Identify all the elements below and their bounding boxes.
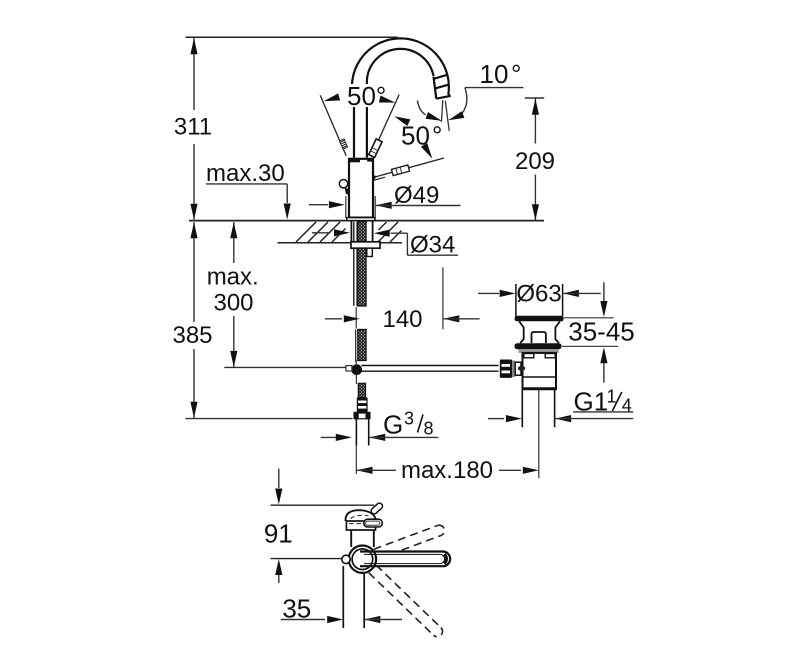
lever line root wedge xyxy=(373,174,377,182)
braided hose below tee xyxy=(358,383,365,397)
front view handle dome xyxy=(345,510,375,521)
dimension 35-45 xyxy=(564,317,614,319)
svg-text:91: 91 xyxy=(264,519,293,549)
pivot side ball xyxy=(342,555,350,563)
50 deg upper label with white backing xyxy=(344,84,389,107)
stream axis tilted line xyxy=(445,101,449,131)
svg-text:°: ° xyxy=(432,121,442,151)
top reference line xyxy=(186,36,398,38)
dimension Ø63 xyxy=(478,292,499,294)
tee left fitting xyxy=(346,366,352,371)
dimension G1 1/4 xyxy=(488,418,504,420)
hose break symbol xyxy=(355,307,357,329)
dashed lever swung up xyxy=(374,524,446,560)
pivot ring outer xyxy=(349,546,376,573)
shank through counter xyxy=(350,221,352,242)
pop-up body xyxy=(523,353,557,389)
50 deg upper left arrow xyxy=(323,93,340,104)
lever down short double line xyxy=(370,177,385,181)
spout tube outer wall and arc xyxy=(352,38,449,157)
pop-up neck left xyxy=(519,321,524,343)
body top-left black notch xyxy=(349,159,360,163)
rod pivot ball xyxy=(518,366,525,371)
dimension 91 xyxy=(278,469,280,488)
front view body shaft xyxy=(342,566,344,628)
svg-text:3: 3 xyxy=(404,409,414,429)
smooth hose lower section xyxy=(355,330,357,363)
svg-text:4: 4 xyxy=(622,396,632,416)
supply tube extension line xyxy=(355,446,357,475)
dimension 140 xyxy=(442,267,444,329)
svg-text:35-45: 35-45 xyxy=(568,317,635,347)
svg-text:°: ° xyxy=(511,59,521,89)
escutcheon base xyxy=(347,218,375,221)
lever down end cap (hatched) xyxy=(391,165,409,176)
braided hose lower section xyxy=(358,330,366,361)
385 bottom reference line xyxy=(185,418,352,420)
pop-up neck right xyxy=(555,321,560,343)
svg-text:140: 140 xyxy=(382,306,422,333)
dimension Ø49 xyxy=(345,196,347,218)
svg-text:G: G xyxy=(383,410,403,440)
10 deg left arc with arrow xyxy=(418,101,426,115)
svg-text:10: 10 xyxy=(480,59,509,89)
10 deg right arc with arrow xyxy=(462,88,467,114)
svg-text:8: 8 xyxy=(424,419,434,439)
front view lever axis reference line xyxy=(271,558,342,560)
10 deg label reference line xyxy=(465,87,524,89)
50 deg upper right arrow xyxy=(379,95,396,106)
lever position left line xyxy=(320,95,346,156)
50 deg lower leader arrow xyxy=(421,143,435,160)
knob bracket wedge xyxy=(345,188,349,195)
dimension max.300 xyxy=(233,222,235,367)
svg-text:Ø34: Ø34 xyxy=(410,232,455,259)
dimension Ø34 xyxy=(312,232,330,234)
svg-text:max.: max. xyxy=(207,264,259,291)
counter bottom line xyxy=(278,242,403,244)
lever down position line xyxy=(372,158,444,178)
50 deg lower label xyxy=(399,122,446,147)
svg-text:Ø49: Ø49 xyxy=(394,182,439,209)
pop-up body clips xyxy=(524,354,534,358)
supply tube below connector xyxy=(355,420,357,446)
rod nut xyxy=(515,362,521,375)
handle band xyxy=(346,521,375,530)
drain tube walls xyxy=(521,389,523,427)
lever stub up-right xyxy=(370,502,384,515)
pop-up rod horizontal xyxy=(362,365,499,367)
pop-up rod knob xyxy=(500,360,512,378)
counter hatching left xyxy=(296,222,346,242)
svg-text:300: 300 xyxy=(213,290,253,317)
aerator tip xyxy=(433,75,450,99)
svg-text:385: 385 xyxy=(172,322,212,349)
svg-text:max.30: max.30 xyxy=(206,160,285,187)
lever right end cap (hatched) xyxy=(369,139,382,158)
pop-up top flange xyxy=(515,316,564,322)
hose line below tee xyxy=(355,375,357,385)
dimension max.180 xyxy=(357,467,373,474)
pop-up body bottom edge xyxy=(522,387,557,390)
counter top line xyxy=(189,220,544,222)
lever position right line xyxy=(371,95,399,156)
faucet body xyxy=(349,159,373,218)
body top-right black notch xyxy=(367,159,373,162)
dimension 311 xyxy=(193,38,195,220)
braided hose upper section xyxy=(358,222,366,307)
front view neck xyxy=(350,530,352,547)
dome dashed arc xyxy=(351,515,369,518)
pivot ring inner xyxy=(352,549,373,570)
pop-up top cylinder walls xyxy=(515,284,517,316)
lever arm end shade xyxy=(444,554,446,563)
dimension 209 xyxy=(525,97,545,99)
dimension G3/8 xyxy=(321,436,337,438)
rod knob collar xyxy=(512,361,515,378)
G3/8 connector striped xyxy=(357,398,368,413)
front view top reference line xyxy=(271,504,375,506)
svg-text:Ø63: Ø63 xyxy=(516,281,561,308)
pop-up body mid line xyxy=(523,376,557,378)
locking nut below counter xyxy=(351,242,380,248)
smooth hose upper section xyxy=(353,222,355,306)
side pin capsule xyxy=(364,519,383,527)
body side knob xyxy=(339,180,347,188)
pop-up bottom flange xyxy=(515,343,562,349)
fitting below nut xyxy=(367,248,373,256)
pop-up center stem xyxy=(532,332,546,343)
stream axis vertical reference line xyxy=(441,100,443,131)
svg-text:max.180: max.180 xyxy=(401,457,493,484)
tee junction ball xyxy=(351,364,362,375)
hose line above tee xyxy=(355,360,357,365)
svg-text:311: 311 xyxy=(174,114,212,141)
pop-up drain centerline xyxy=(538,389,540,478)
counter hatching right xyxy=(378,222,402,242)
svg-text:G1: G1 xyxy=(574,386,609,416)
lever left end cap (hatched) xyxy=(339,139,347,149)
dimension 385 xyxy=(193,222,195,418)
pop-up washer xyxy=(518,349,558,353)
G3/8 connector lower block xyxy=(354,412,371,420)
spout tube inner wall and arc xyxy=(367,49,434,158)
50 deg lower upper arrow xyxy=(393,113,411,126)
max.300 bottom reference line / rod line left part xyxy=(224,366,346,368)
svg-text:209: 209 xyxy=(515,148,555,175)
lever arm horizontal xyxy=(360,552,450,567)
dashed lever swung down xyxy=(369,565,445,639)
svg-text:1: 1 xyxy=(607,387,617,407)
